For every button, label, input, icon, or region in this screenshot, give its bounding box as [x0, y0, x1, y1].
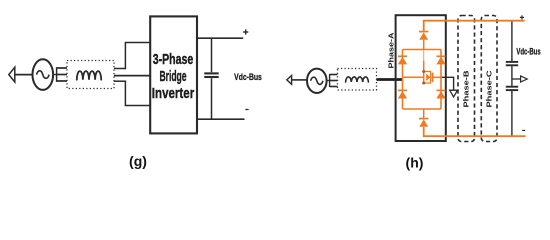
svg-text:Inverter: Inverter: [152, 85, 194, 102]
svg-text:3-Phase: 3-Phase: [153, 51, 194, 68]
svg-text:Phase-B: Phase-B: [461, 70, 470, 108]
svg-text:Phase-A: Phase-A: [386, 32, 395, 69]
svg-text:Vdc-Bus: Vdc-Bus: [516, 46, 540, 56]
svg-text:Bridge: Bridge: [159, 68, 186, 85]
svg-text:Phase-C: Phase-C: [484, 70, 493, 108]
svg-text:Vdc-Bus: Vdc-Bus: [234, 72, 262, 83]
svg-text:(h): (h): [406, 155, 424, 171]
svg-text:(g): (g): [129, 153, 147, 169]
